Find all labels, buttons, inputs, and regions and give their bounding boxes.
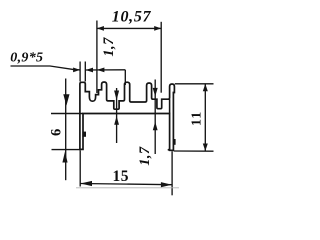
svg-text:1,7: 1,7 (101, 37, 117, 57)
svg-text:1,7: 1,7 (137, 146, 153, 166)
svg-text:11: 11 (190, 111, 205, 126)
svg-text:15: 15 (113, 168, 130, 185)
svg-text:10,57: 10,57 (112, 8, 152, 25)
svg-text:0,9*5: 0,9*5 (10, 51, 43, 66)
svg-text:6: 6 (48, 129, 64, 136)
